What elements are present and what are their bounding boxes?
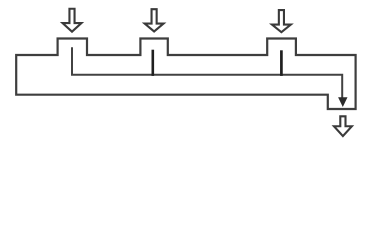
inlet dip tube 1 and internal flow line to outlet (72, 47, 342, 99)
inlet dip tube 2 (152, 50, 155, 76)
solid flow arrowhead inside outlet (338, 97, 347, 107)
manifold outer outline with three inlet ports and stepped outlet (16, 39, 355, 110)
inlet dip tube 3 (280, 50, 283, 76)
hollow inlet arrow 3 (272, 10, 291, 32)
hollow inlet arrow 1 (63, 9, 82, 32)
hollow inlet arrow 2 (145, 9, 164, 31)
hollow outlet arrow (334, 116, 352, 136)
